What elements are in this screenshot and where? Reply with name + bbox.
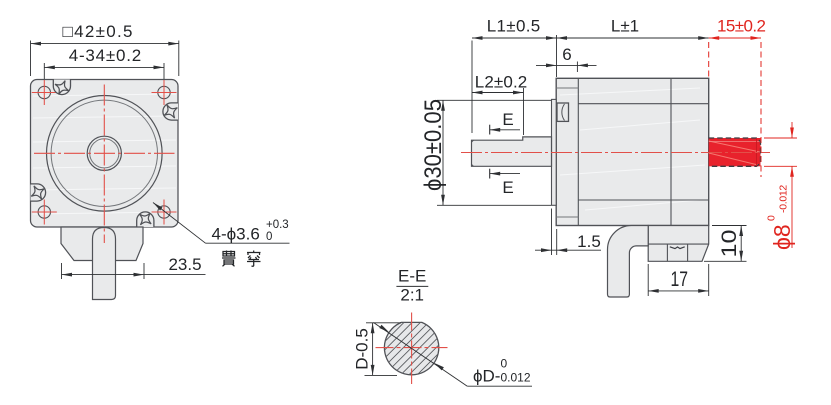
svg-text:17: 17: [670, 268, 688, 291]
svg-text:1.5: 1.5: [577, 232, 601, 251]
svg-text:ϕD-: ϕD-: [473, 367, 500, 386]
svg-text:E: E: [502, 110, 513, 129]
svg-text:0: 0: [501, 357, 508, 371]
svg-text:0.012: 0.012: [501, 371, 531, 385]
svg-text:-0.012: -0.012: [778, 185, 790, 213]
svg-text:L1±0.5: L1±0.5: [487, 17, 541, 36]
svg-text:4-ϕ3.6: 4-ϕ3.6: [212, 225, 260, 244]
svg-text:E-E: E-E: [398, 267, 426, 286]
svg-text:10: 10: [718, 230, 741, 258]
svg-text:23.5: 23.5: [168, 255, 201, 274]
svg-text:L2±0.2: L2±0.2: [475, 73, 528, 92]
svg-text:0: 0: [766, 215, 778, 221]
svg-text:2:1: 2:1: [400, 286, 424, 305]
svg-text:D-0.5: D-0.5: [353, 328, 372, 370]
svg-text:0: 0: [266, 231, 272, 243]
svg-text:E: E: [502, 178, 513, 197]
svg-text:ϕ30±0.05: ϕ30±0.05: [420, 99, 447, 191]
svg-text:L±1: L±1: [611, 17, 639, 36]
svg-text:6: 6: [562, 45, 571, 64]
svg-text:+0.3: +0.3: [266, 219, 289, 231]
svg-text:ϕ8: ϕ8: [769, 224, 795, 250]
svg-text:15±0.2: 15±0.2: [717, 17, 766, 36]
svg-text:4-34±0.2: 4-34±0.2: [69, 46, 142, 65]
